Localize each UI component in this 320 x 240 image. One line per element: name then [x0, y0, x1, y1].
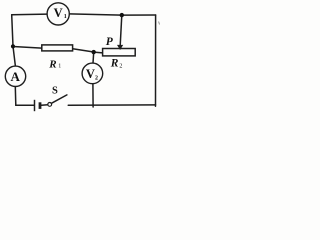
wire left rail upper: [12, 15, 13, 47]
node middle junction: [92, 50, 96, 54]
wire right rail: [155, 15, 157, 106]
wire top-right from V1 to junction: [69, 14, 122, 15]
svg-text:2: 2: [119, 64, 122, 70]
voltmeter V1: [47, 3, 69, 25]
node top junction: [120, 13, 124, 17]
wire left rail mid to ammeter: [13, 46, 15, 66]
wire top-left horizontal: [12, 13, 48, 16]
wire bottom-left to battery: [16, 104, 34, 106]
ammeter A: [5, 66, 25, 86]
node left junction: [11, 44, 15, 48]
svg-text:2: 2: [95, 76, 98, 82]
wire below ammeter: [14, 86, 17, 105]
wire middle-left junction to R1: [13, 47, 42, 49]
wiper arrow of R2: [117, 15, 123, 50]
svg-text:R: R: [48, 58, 56, 70]
voltmeter V2: [82, 63, 103, 84]
resistor R1: [42, 45, 73, 70]
rheostat R2: [103, 49, 136, 70]
wire top-far-right junction to corner: [122, 14, 156, 16]
wire R1 to middle junction: [73, 49, 94, 52]
svg-text:V: V: [54, 6, 63, 20]
wire V2 stub top: [92, 52, 95, 63]
wire V2 stub bottom: [92, 84, 94, 107]
svg-text:1: 1: [64, 14, 67, 20]
svg-text:R: R: [110, 58, 119, 70]
wire battery to switch: [41, 104, 47, 107]
svg-text:P: P: [106, 36, 114, 48]
svg-text:S: S: [52, 85, 58, 96]
stray scan mark: [158, 22, 161, 25]
svg-text:V: V: [86, 67, 95, 81]
svg-text:A: A: [11, 69, 21, 84]
wire bottom-middle to corner: [68, 104, 155, 106]
wire middle junction to R2: [94, 51, 103, 54]
svg-text:1: 1: [58, 64, 61, 70]
battery cell: [35, 100, 41, 111]
switch S: [48, 95, 67, 106]
